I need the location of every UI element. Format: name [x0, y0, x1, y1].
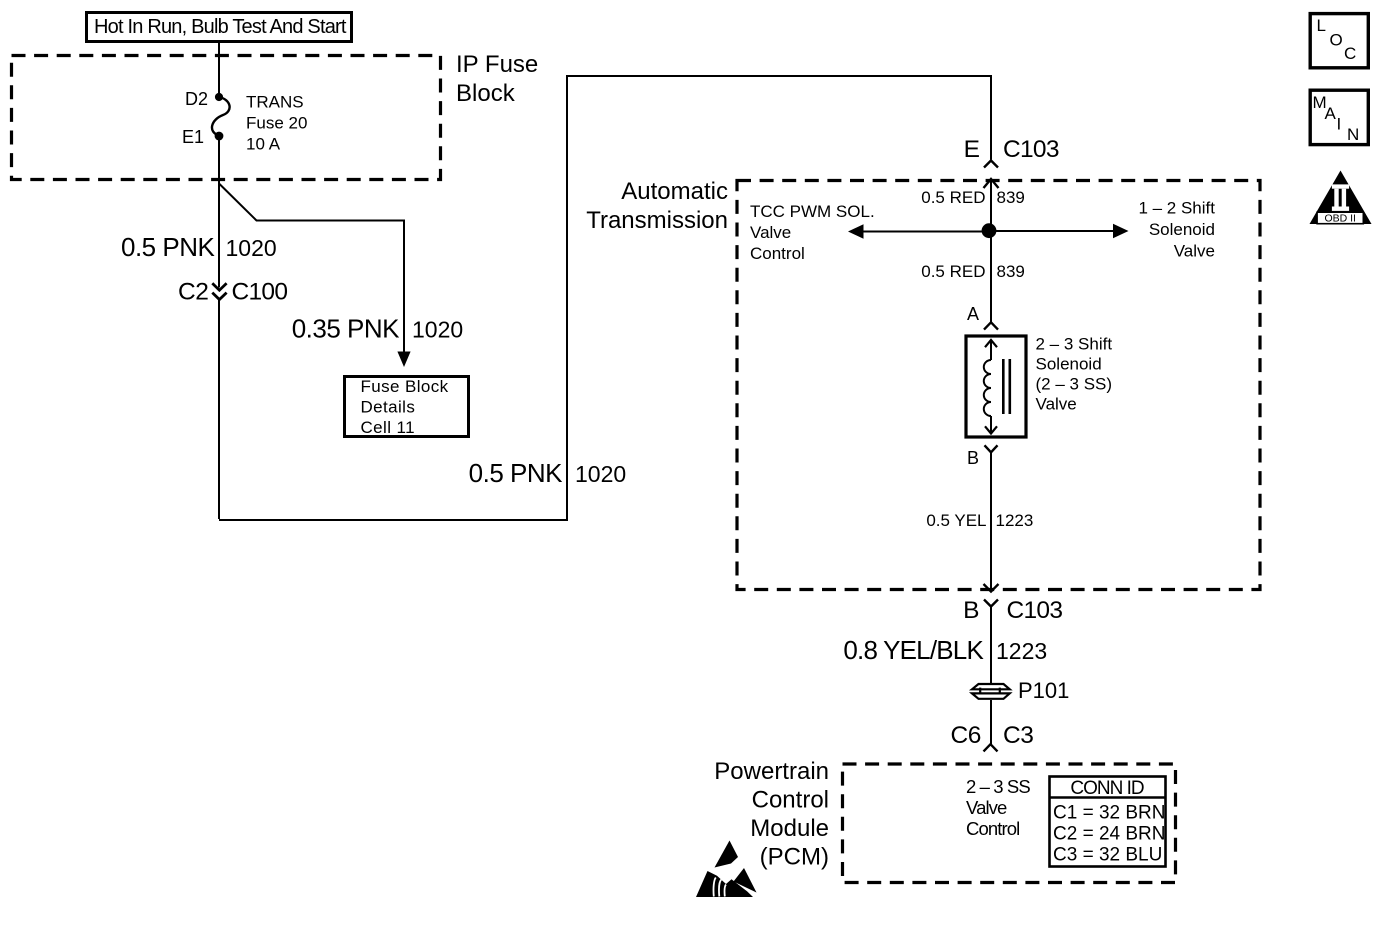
svg-text:L: L: [1317, 16, 1326, 35]
svg-text:Valve: Valve: [1036, 395, 1077, 414]
svg-text:Module: Module: [750, 815, 829, 842]
ESD symbol: [696, 841, 757, 898]
wire bottom run and up right side to transmission: [219, 76, 991, 520]
svg-text:0.5 PNK: 0.5 PNK: [469, 458, 563, 488]
connector caret C6/C3: [984, 744, 998, 751]
solenoid 2-3 SS box: [966, 336, 1026, 437]
svg-text:2 – 3 Shift: 2 – 3 Shift: [1036, 335, 1113, 354]
CONN ID table: [1050, 777, 1166, 867]
svg-text:C3 = 32 BLU: C3 = 32 BLU: [1053, 845, 1162, 866]
wire header to fuse: [218, 42, 220, 94]
svg-text:1223: 1223: [996, 638, 1047, 664]
connector C2/C100 chevrons: [212, 283, 226, 290]
svg-text:C103: C103: [1007, 597, 1063, 624]
connector B C103 Y: [984, 600, 998, 607]
svg-text:0.5 PNK: 0.5 PNK: [121, 232, 215, 262]
svg-text:0.8 YEL/BLK: 0.8 YEL/BLK: [843, 635, 984, 665]
svg-text:Valve: Valve: [750, 223, 791, 242]
svg-text:TCC PWM SOL.: TCC PWM SOL.: [750, 202, 875, 221]
svg-text:1020: 1020: [226, 235, 277, 261]
terminal dot D2: [215, 93, 223, 101]
connector caret A: [984, 322, 998, 329]
svg-text:1020: 1020: [412, 317, 463, 343]
svg-text:2 – 3 SS: 2 – 3 SS: [966, 776, 1030, 797]
svg-text:IP Fuse: IP Fuse: [456, 51, 538, 78]
svg-text:Control: Control: [966, 818, 1019, 839]
svg-text:A: A: [967, 304, 979, 324]
svg-text:C100: C100: [232, 279, 288, 306]
svg-text:Powertrain: Powertrain: [714, 758, 829, 785]
svg-text:I: I: [1337, 115, 1342, 134]
svg-text:E1: E1: [182, 127, 204, 147]
wire solenoid B down to box edge: [990, 452, 992, 590]
junction node: [982, 223, 997, 238]
svg-text:N: N: [1347, 125, 1359, 144]
svg-text:Hot In Run, Bulb Test And Star: Hot In Run, Bulb Test And Start: [94, 16, 347, 38]
svg-text:C2 = 24 BRN: C2 = 24 BRN: [1053, 824, 1165, 845]
wire to TCC PWM solenoid (left arrow): [862, 231, 985, 233]
connector E C103 caret: [984, 161, 998, 168]
svg-text:Transmission: Transmission: [586, 207, 728, 234]
svg-text:E: E: [964, 136, 980, 163]
solenoid internal arrow with coil: [990, 340, 992, 360]
svg-text:C6: C6: [950, 722, 981, 749]
svg-text:TRANS: TRANS: [246, 93, 304, 112]
up arrow into transmission box: [984, 179, 999, 188]
svg-text:Valve: Valve: [1174, 242, 1215, 261]
svg-text:0.5 RED: 0.5 RED: [921, 188, 985, 207]
svg-text:B: B: [967, 448, 979, 468]
svg-text:A: A: [1325, 104, 1337, 123]
svg-text:D2: D2: [185, 89, 208, 109]
svg-text:1223: 1223: [996, 511, 1034, 530]
svg-text:Cell 11: Cell 11: [361, 418, 415, 437]
svg-text:(PCM): (PCM): [760, 844, 829, 871]
Automatic Transmission dashed box: [737, 181, 1260, 590]
wire to 1-2 shift solenoid (right arrow): [993, 230, 1114, 232]
PCM dashed box: [843, 764, 1176, 883]
svg-text:Fuse 20: Fuse 20: [246, 114, 307, 133]
splice P101: [972, 684, 1010, 689]
svg-text:O: O: [1330, 31, 1343, 50]
terminal dot E1: [215, 132, 224, 141]
svg-text:839: 839: [997, 188, 1025, 207]
svg-text:Block: Block: [456, 80, 516, 107]
svg-text:Automatic: Automatic: [621, 178, 728, 205]
svg-text:Control: Control: [750, 244, 805, 263]
svg-text:C1 = 32 BRN: C1 = 32 BRN: [1053, 803, 1165, 824]
svg-text:Details: Details: [361, 398, 416, 417]
svg-text:1020: 1020: [575, 461, 626, 487]
svg-text:10 A: 10 A: [246, 135, 281, 154]
svg-text:CONN ID: CONN ID: [1070, 778, 1144, 799]
svg-text:B: B: [963, 597, 979, 624]
svg-text:Control: Control: [752, 787, 829, 814]
svg-text:1 – 2 Shift: 1 – 2 Shift: [1138, 199, 1215, 218]
svg-text:0.5 RED: 0.5 RED: [921, 262, 985, 281]
svg-text:Solenoid: Solenoid: [1036, 355, 1102, 374]
OBD II symbol: [1310, 171, 1372, 225]
svg-text:0.5 YEL: 0.5 YEL: [926, 511, 986, 530]
MAIN symbol box: [1310, 90, 1368, 144]
arrowhead to Fuse Block Details: [397, 352, 410, 368]
down arrow at transmission box exit: [984, 584, 999, 592]
svg-text:Solenoid: Solenoid: [1149, 220, 1215, 239]
svg-text:0.35 PNK: 0.35 PNK: [292, 314, 400, 344]
wire E1 down to C100 connector: [218, 136, 220, 288]
wire C100 down to bottom run: [218, 300, 220, 520]
svg-text:Valve: Valve: [966, 797, 1007, 818]
header box "Hot In Run, Bulb Test And Start": [87, 13, 352, 42]
svg-text:839: 839: [997, 262, 1025, 281]
fuse TRANS Fuse 20: [212, 97, 230, 136]
svg-text:(2 – 3 SS): (2 – 3 SS): [1036, 375, 1113, 394]
svg-text:OBD II: OBD II: [1324, 213, 1356, 225]
wire splice to PCM: [990, 700, 992, 744]
connector Y below solenoid: [985, 445, 998, 452]
svg-text:P101: P101: [1018, 678, 1069, 703]
svg-text:C2: C2: [178, 279, 209, 306]
svg-text:C103: C103: [1003, 136, 1059, 163]
svg-text:C: C: [1344, 44, 1356, 63]
svg-text:C3: C3: [1003, 722, 1034, 749]
IP Fuse Block dashed box: [12, 56, 441, 180]
Fuse Block Details box: [345, 377, 469, 437]
svg-text:Fuse Block: Fuse Block: [361, 377, 449, 396]
LOC symbol box: [1310, 14, 1368, 68]
wire down to splice: [990, 607, 992, 684]
wire down to solenoid pin A: [990, 179, 992, 322]
wire branch diagonal to fuse-details arrow: [219, 184, 404, 353]
solenoid core bars: [1003, 359, 1010, 414]
